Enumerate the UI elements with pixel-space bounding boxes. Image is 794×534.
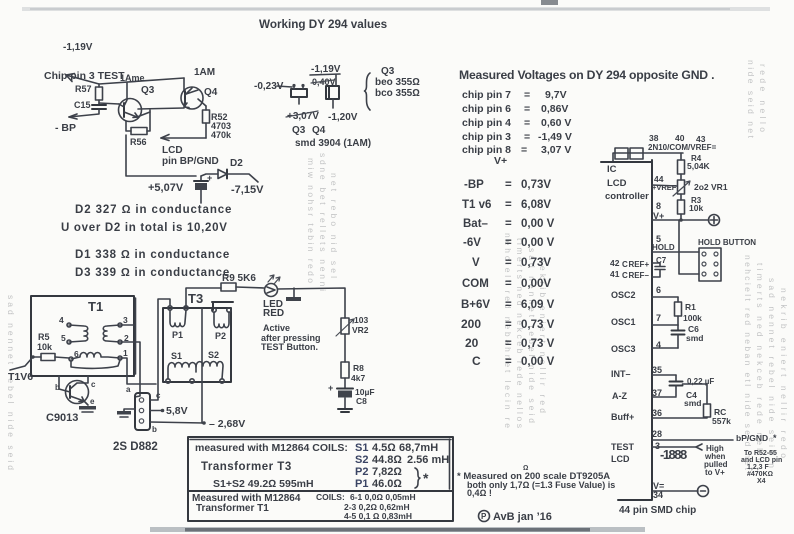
wire pin3 <box>120 324 134 326</box>
transformer T1 box <box>31 296 134 376</box>
svg-text:HOLD BUTTON: HOLD BUTTON <box>698 238 756 247</box>
svg-text:9,7V: 9,7V <box>545 89 567 101</box>
svg-text:=: = <box>505 237 512 249</box>
wire cap to RC <box>683 384 708 404</box>
smd transistor Q3 <box>291 89 307 97</box>
svg-text:=: = <box>505 299 512 311</box>
svg-text:and LCD pin: and LCD pin <box>741 457 782 464</box>
svg-text:=: = <box>524 103 530 115</box>
svg-text:net rebo nid sel: net rebo nid sel <box>329 173 339 278</box>
svg-text:R57: R57 <box>75 84 92 94</box>
svg-text:0,00 V: 0,00 V <box>521 237 555 249</box>
svg-text:C15: C15 <box>74 100 91 110</box>
svg-text:3: 3 <box>123 315 128 325</box>
svg-text:0,4Ω !: 0,4Ω ! <box>467 488 492 498</box>
wire pin2 out to 2SD882 <box>120 342 140 397</box>
svg-text:=: = <box>505 278 512 290</box>
svg-text:bco 355Ω: bco 355Ω <box>375 88 420 99</box>
T1 primary winding left <box>67 323 71 327</box>
svg-text:10k: 10k <box>689 203 703 213</box>
svg-text:R5: R5 <box>38 332 50 342</box>
svg-text:Active: Active <box>263 323 290 333</box>
svg-text:5: 5 <box>61 333 66 343</box>
svg-text:B+6V: B+6V <box>461 299 490 311</box>
resistor R8 <box>341 362 349 378</box>
svg-text:7: 7 <box>656 313 661 323</box>
svg-text:*: * <box>423 470 429 486</box>
wire 5,8V node <box>150 410 162 412</box>
wire P2 top heavy bar <box>212 302 233 310</box>
scan band bottom <box>150 527 645 532</box>
svg-text:LCD: LCD <box>607 178 627 189</box>
svg-text:pin BP/GND: pin BP/GND <box>162 156 219 167</box>
wire pin1 out down <box>120 358 156 384</box>
brace and star <box>415 468 420 488</box>
IC body edge <box>601 160 652 500</box>
svg-text:C9013: C9013 <box>46 412 78 424</box>
svg-text:=: = <box>524 89 530 101</box>
wire to smd Q3 <box>277 86 292 87</box>
svg-text:41: 41 <box>610 269 620 279</box>
svg-text:+: + <box>328 383 333 393</box>
svg-text:P1: P1 <box>172 330 183 340</box>
T1 winding bottom <box>69 357 73 361</box>
signature AvB jan '16 <box>479 511 490 522</box>
svg-text:T1: T1 <box>88 299 103 314</box>
svg-text:68,7mH: 68,7mH <box>399 442 438 454</box>
svg-text:VR2: VR2 <box>352 325 369 335</box>
svg-text:D3 339 Ω in conductance: D3 339 Ω in conductance <box>75 267 230 279</box>
svg-text:C REF–: C REF– <box>622 271 649 280</box>
svg-text:controller: controller <box>605 191 649 202</box>
terminal circle dot <box>698 486 709 497</box>
svg-text:P1: P1 <box>355 478 368 490</box>
svg-text:0,60 V: 0,60 V <box>541 117 571 129</box>
svg-text:V+: V+ <box>494 155 507 167</box>
svg-text:Working DY 294 values: Working DY 294 values <box>259 18 388 31</box>
svg-text:Q3: Q3 <box>381 66 395 77</box>
wire base Q3 <box>99 103 119 104</box>
capacitor C15 <box>92 105 106 109</box>
svg-text:38: 38 <box>649 133 659 143</box>
svg-text:TEST: TEST <box>611 442 635 452</box>
svg-text:35: 35 <box>652 365 662 375</box>
svg-text:T3: T3 <box>188 291 203 306</box>
svg-text:OSC1: OSC1 <box>611 317 636 327</box>
svg-text:A-Z: A-Z <box>612 391 627 401</box>
svg-text:=: = <box>505 257 512 269</box>
svg-text:4k7: 4k7 <box>351 373 365 383</box>
svg-text:1: 1 <box>123 348 128 358</box>
svg-text:2o2 VR1: 2o2 VR1 <box>694 182 728 192</box>
svg-text:=: = <box>505 218 512 230</box>
svg-text:D2 327 Ω in conductance: D2 327 Ω in conductance <box>75 204 232 216</box>
svg-text:measured with M12864 COILS:: measured with M12864 COILS: <box>195 442 348 454</box>
capacitor 0,22uF <box>675 375 677 381</box>
wire V+ node to + terminal <box>652 219 709 221</box>
svg-text:5,04K: 5,04K <box>687 161 711 171</box>
svg-text:+5,07V: +5,07V <box>148 182 184 194</box>
ground C8 <box>338 409 352 412</box>
svg-text:S1: S1 <box>171 351 182 361</box>
svg-text:1AM: 1AM <box>194 67 215 78</box>
table 1 box <box>188 437 453 491</box>
svg-text:=: = <box>505 356 512 368</box>
terminal + <box>709 215 720 226</box>
svg-text:Q3: Q3 <box>141 85 155 96</box>
svg-text:chip pin 6: chip pin 6 <box>462 103 511 115</box>
svg-text:a: a <box>126 385 131 394</box>
svg-text:P2: P2 <box>215 331 226 341</box>
svg-text:7,82Ω: 7,82Ω <box>372 466 402 478</box>
svg-text:– 2,68V: – 2,68V <box>209 418 245 430</box>
svg-text:T1V6: T1V6 <box>8 371 33 383</box>
trimmer VR2 <box>341 318 349 334</box>
svg-text:=: = <box>521 144 527 156</box>
wire top bus <box>613 153 683 162</box>
capacitor C6 <box>677 325 679 330</box>
svg-text:2.56 mH: 2.56 mH <box>407 454 449 466</box>
resistor R52 <box>205 106 207 110</box>
wire Q3 emitter row <box>137 110 150 117</box>
transistor 2SD882 package <box>135 393 150 430</box>
svg-text:Q3: Q3 <box>292 125 306 136</box>
svg-text:smd 3904 (1AM): smd 3904 (1AM) <box>295 138 371 149</box>
LED <box>265 284 278 297</box>
svg-text:42: 42 <box>610 258 620 268</box>
svg-text:X4: X4 <box>757 478 766 485</box>
svg-text:U over D2 in total is 10,20V: U over D2 in total is 10,20V <box>61 222 228 234</box>
svg-text:e: e <box>90 397 95 406</box>
svg-text:0,00V: 0,00V <box>521 278 551 290</box>
svg-text:S1+S2 49.2Ω 595mH: S1+S2 49.2Ω 595mH <box>213 478 314 490</box>
hold button box <box>699 248 721 281</box>
svg-text:RED: RED <box>263 308 284 319</box>
svg-text:6,09 V: 6,09 V <box>521 299 555 311</box>
svg-text:C8: C8 <box>356 396 367 406</box>
svg-text:36: 36 <box>652 408 662 418</box>
svg-text:8: 8 <box>656 201 661 211</box>
svg-text:S2: S2 <box>355 454 368 466</box>
svg-text:44 pin SMD chip: 44 pin SMD chip <box>619 505 696 516</box>
resistor R4 <box>680 153 682 160</box>
svg-text:470k: 470k <box>211 130 232 140</box>
svg-text:V: V <box>472 257 480 269</box>
svg-text:10k: 10k <box>37 342 53 352</box>
svg-text:beo 355Ω: beo 355Ω <box>375 77 420 88</box>
svg-text:40: 40 <box>675 133 685 143</box>
svg-text:To R52-55: To R52-55 <box>744 450 777 457</box>
svg-text:2N10/COM/VREF=: 2N10/COM/VREF= <box>648 143 717 152</box>
svg-text:0,00 V: 0,00 V <box>521 356 555 368</box>
svg-text:-6V: -6V <box>463 237 481 249</box>
scan edge band top <box>22 7 770 11</box>
svg-text:20: 20 <box>465 336 479 350</box>
svg-text:HOLD: HOLD <box>652 243 675 252</box>
svg-text:LCD: LCD <box>162 145 183 156</box>
svg-text:C: C <box>472 354 481 368</box>
T1 winding right <box>118 323 122 327</box>
svg-text:=: = <box>524 131 530 143</box>
svg-text:0,73 V: 0,73 V <box>521 319 555 331</box>
svg-text:b: b <box>55 383 60 392</box>
transistor Q4 <box>181 87 203 109</box>
svg-text:COM: COM <box>462 278 489 290</box>
svg-text:100k: 100k <box>683 313 702 323</box>
transistor C9013 <box>66 381 89 404</box>
svg-text:3,07 V: 3,07 V <box>541 144 571 156</box>
wire P1 right up to R9 <box>186 288 221 308</box>
wire BP/GND long <box>652 439 733 441</box>
svg-text:chip pin 7: chip pin 7 <box>462 89 511 101</box>
wire -2,68V node <box>150 422 204 423</box>
svg-text:0,73V: 0,73V <box>521 179 551 191</box>
LED arrows <box>268 275 280 284</box>
svg-text:2S D882: 2S D882 <box>113 441 158 453</box>
transformer T3 box <box>163 308 231 382</box>
svg-text:46.0Ω: 46.0Ω <box>372 478 402 490</box>
resistor R57 <box>98 84 100 87</box>
svg-text:Transformer T3: Transformer T3 <box>201 461 292 473</box>
svg-text:-BP: -BP <box>464 179 484 191</box>
svg-text:-7,15V: -7,15V <box>231 184 264 196</box>
svg-text:COILS:: COILS: <box>316 492 345 502</box>
svg-text:-1,19V: -1,19V <box>63 42 93 53</box>
svg-text:OSC2: OSC2 <box>611 290 636 300</box>
wire LED right <box>278 288 346 318</box>
svg-text:Bat–: Bat– <box>463 218 489 230</box>
svg-text:=: = <box>505 179 512 191</box>
svg-text:R9 5K6: R9 5K6 <box>222 273 256 284</box>
svg-text:557k: 557k <box>712 416 731 426</box>
svg-text:200: 200 <box>461 317 481 331</box>
svg-text:P2: P2 <box>355 466 368 478</box>
wire Q3 collector long down <box>126 135 196 176</box>
svg-text:44.8Ω: 44.8Ω <box>372 454 402 466</box>
resistor RC <box>704 404 711 417</box>
svg-text:Measured Voltages on DY 294: Measured Voltages on DY 294 opposite GND… <box>459 68 714 82</box>
wire LCD BP/GND arrow <box>161 137 206 139</box>
svg-text:AvB jan ’16: AvB jan ’16 <box>493 511 552 523</box>
resistor R56 loop <box>126 121 131 131</box>
svg-text:S1: S1 <box>355 442 368 454</box>
svg-text:0,73 V: 0,73 V <box>521 338 555 350</box>
svg-text:Q4: Q4 <box>312 125 326 136</box>
svg-text:smd: smd <box>686 333 703 343</box>
svg-text:T1 v6: T1 v6 <box>462 199 491 211</box>
svg-text:P: P <box>481 512 487 521</box>
svg-text:1Ame: 1Ame <box>120 73 145 83</box>
svg-text:IC: IC <box>607 164 617 175</box>
svg-text:=: = <box>505 199 512 211</box>
resistor R3 <box>678 200 685 214</box>
transistor Q3 <box>119 99 142 122</box>
faint bleed-through text columns <box>6 60 789 471</box>
svg-text:smd: smd <box>684 398 701 408</box>
T3 winding P1 <box>168 306 172 310</box>
svg-text:1,2,3 F: 1,2,3 F <box>747 464 770 471</box>
svg-text:#470KΩ: #470KΩ <box>747 471 773 478</box>
svg-text:OSC3: OSC3 <box>611 344 636 354</box>
wire R9 to LED <box>236 287 264 288</box>
svg-text:6: 6 <box>656 285 661 295</box>
svg-text:Transformer T1: Transformer T1 <box>196 503 269 514</box>
svg-text:to V+: to V+ <box>705 468 725 477</box>
svg-text:R8: R8 <box>353 363 364 373</box>
svg-text:*: * <box>773 433 777 443</box>
brace <box>365 73 371 110</box>
trimmer VR1 <box>678 180 685 194</box>
wire -BP arrow from C15 <box>69 109 99 117</box>
svg-text:4-5 0,1 Ω 0,83mH: 4-5 0,1 Ω 0,83mH <box>344 511 412 521</box>
wire emitter rail to Q4 <box>138 108 184 109</box>
pin rect 38 <box>615 148 628 159</box>
wire down to button <box>679 220 699 274</box>
resistor R9 <box>221 283 236 291</box>
wire center tap S windings <box>201 308 203 423</box>
svg-text:TEST Button.: TEST Button. <box>261 342 318 352</box>
pin rect 40 <box>630 148 643 159</box>
svg-text:- BP: - BP <box>55 122 76 134</box>
svg-text:chip pin 3: chip pin 3 <box>462 131 511 143</box>
svg-text:b: b <box>152 425 157 434</box>
svg-text:28: 28 <box>652 429 662 439</box>
svg-text:0,73V: 0,73V <box>521 257 551 269</box>
svg-text:103: 103 <box>354 315 368 325</box>
svg-text:4: 4 <box>59 315 64 325</box>
wire c pin up <box>150 299 170 400</box>
svg-text:6-1 0,0Ω 0,05mH: 6-1 0,0Ω 0,05mH <box>350 492 416 502</box>
svg-text:INT–: INT– <box>611 369 631 379</box>
svg-text:5,8V: 5,8V <box>166 405 188 417</box>
T3 winding P2 <box>212 308 216 312</box>
svg-text:-1,20V: -1,20V <box>328 112 358 123</box>
ground C9013 <box>84 401 88 405</box>
svg-text:miw nohsr tebin redo: miw nohsr tebin redo <box>306 158 316 283</box>
table 2 box <box>188 491 453 521</box>
svg-text:6,08V: 6,08V <box>521 199 551 211</box>
svg-text:4.5Ω: 4.5Ω <box>372 442 396 454</box>
svg-text:0,00 V: 0,00 V <box>521 218 555 230</box>
dark mark top center-right <box>541 0 558 5</box>
svg-text:c: c <box>91 380 96 389</box>
svg-text:-1,49 V: -1,49 V <box>538 131 572 143</box>
wire T1V6 lead <box>10 358 32 370</box>
terminal bar <box>293 288 295 297</box>
svg-text:chip pin 4: chip pin 4 <box>462 117 511 129</box>
svg-text:D2: D2 <box>230 158 243 169</box>
svg-text:=: = <box>524 117 530 129</box>
wire top rail with arrow to chip pin 3 <box>66 75 184 84</box>
svg-text:-1888: -1888 <box>660 447 687 462</box>
svg-text:bP/GND: bP/GND <box>736 433 768 443</box>
svg-text:C REF+: C REF+ <box>622 260 649 269</box>
svg-text:0,86V: 0,86V <box>541 103 568 115</box>
svg-text:Buff+: Buff+ <box>611 412 634 422</box>
ground 2SD882 <box>124 409 135 411</box>
svg-text:=: = <box>505 319 512 331</box>
svg-text:D1 338 Ω in conductance: D1 338 Ω in conductance <box>75 249 230 261</box>
svg-text:S2: S2 <box>208 350 219 360</box>
svg-text:R1: R1 <box>685 302 696 312</box>
svg-text:=: = <box>505 338 512 350</box>
smd transistor Q4 <box>326 86 339 99</box>
svg-text:Q4: Q4 <box>204 87 218 98</box>
resistor R1 <box>677 297 679 302</box>
svg-text:R56: R56 <box>130 137 147 147</box>
svg-text:LCD: LCD <box>611 454 630 464</box>
diode D2 <box>201 174 218 176</box>
capacitor C16 electrolytic <box>200 176 202 181</box>
